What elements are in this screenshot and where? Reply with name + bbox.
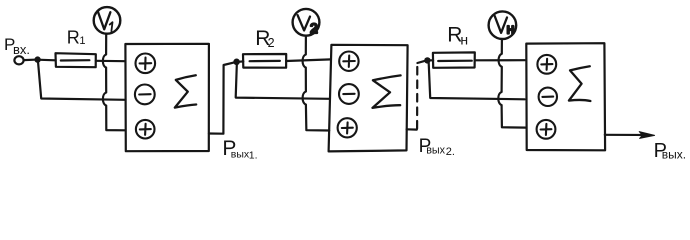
svg-text:2: 2 bbox=[310, 20, 318, 36]
svg-text:н: н bbox=[460, 31, 468, 47]
svg-text:вых.: вых. bbox=[662, 147, 686, 161]
svg-text:н: н bbox=[507, 21, 515, 37]
svg-text:1.: 1. bbox=[249, 150, 258, 162]
svg-text:1: 1 bbox=[79, 35, 85, 47]
svg-text:2: 2 bbox=[268, 36, 275, 50]
svg-text:вых: вых bbox=[426, 144, 445, 156]
svg-text:R: R bbox=[67, 28, 80, 48]
svg-text:вх.: вх. bbox=[13, 42, 30, 57]
svg-text:2.: 2. bbox=[446, 146, 455, 158]
svg-text:вых: вых bbox=[231, 148, 250, 160]
